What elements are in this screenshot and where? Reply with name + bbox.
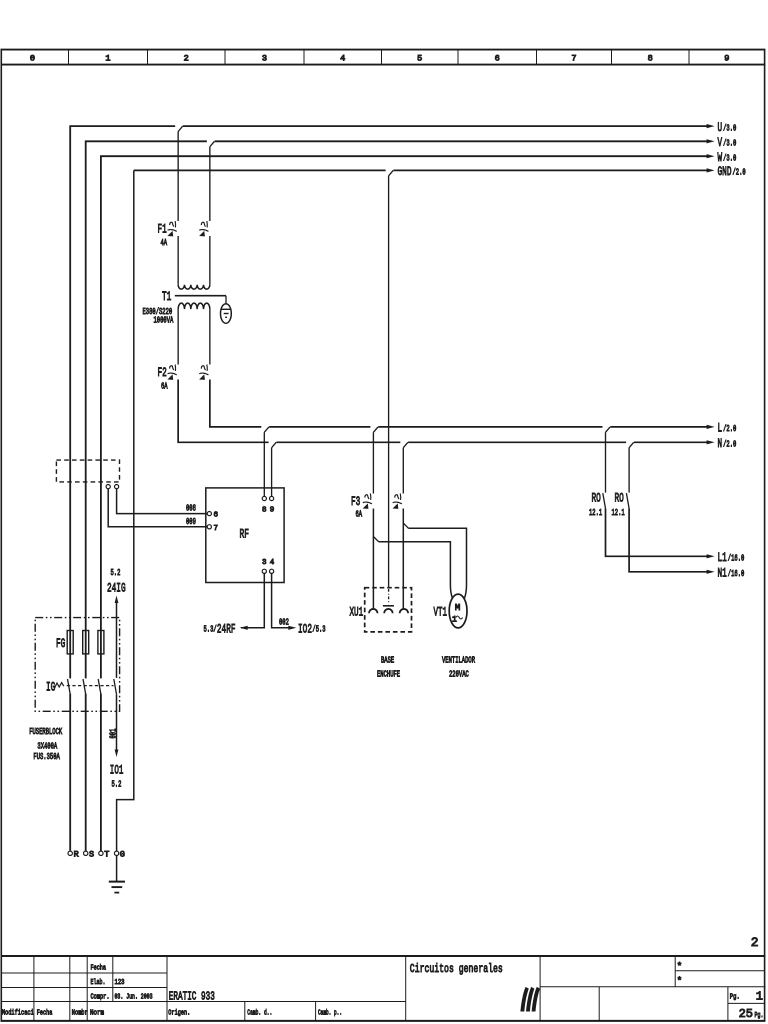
wire bus GND: [117, 170, 708, 851]
fuse FG pole 1: [67, 631, 73, 654]
svg-text:25: 25: [739, 1007, 753, 1021]
label FUSERBLOCK 3X400A FUS.350A: [29, 727, 62, 762]
svg-text:001: 001: [109, 729, 119, 739]
XU1 earth pin: [383, 589, 394, 613]
svg-text:008: 008: [186, 504, 196, 514]
svg-text:Fecha: Fecha: [37, 1010, 53, 1018]
revision stars: [677, 961, 682, 986]
svg-text:Pg.: Pg.: [755, 1012, 764, 1020]
svg-text:/3.0: /3.0: [723, 154, 736, 164]
svg-text:L1: L1: [718, 550, 727, 565]
wire F3 right to XU1 pin N: [402, 509, 404, 609]
svg-text:/16.0: /16.0: [728, 569, 745, 579]
fuse FG pole 3: [98, 631, 104, 654]
svg-text:1: 1: [756, 989, 763, 1003]
wire RO left to L1: [606, 509, 709, 557]
svg-text:24IG: 24IG: [107, 581, 126, 596]
connector pin left: [106, 485, 110, 489]
svg-text:4A: 4A: [161, 238, 168, 248]
svg-text:ERATIC 933: ERATIC 933: [169, 990, 215, 1004]
title block labels: [2, 965, 342, 1018]
node IO1/5.2: [110, 750, 124, 790]
svg-text:F1: F1: [158, 222, 167, 237]
ground symbol: [109, 882, 125, 893]
switch IG pole 4: [114, 679, 117, 694]
wire 24IG to IG pole 4: [116, 603, 118, 678]
svg-text:9: 9: [270, 507, 275, 515]
svg-text:12.1: 12.1: [589, 508, 602, 518]
svg-text:1000VA: 1000VA: [154, 316, 174, 326]
svg-text:2: 2: [184, 54, 189, 64]
node 5.3/24RF: [204, 621, 248, 636]
svg-text:F3: F3: [351, 494, 360, 509]
svg-text:VENTILADOR: VENTILADOR: [442, 656, 475, 666]
block RF: [206, 488, 284, 583]
svg-text:Fecha: Fecha: [91, 965, 107, 973]
svg-text:8: 8: [648, 54, 653, 64]
svg-text:3: 3: [262, 54, 267, 64]
wire bus W: [101, 156, 708, 851]
fuse F3 (right pole): [393, 494, 402, 509]
svg-text:/2.0: /2.0: [723, 424, 736, 434]
svg-text:9: 9: [724, 54, 729, 64]
svg-text:U: U: [718, 120, 723, 135]
svg-text:Nombr: Nombr: [72, 1010, 88, 1018]
svg-text:6A: 6A: [161, 382, 168, 392]
label F2 6A: [158, 365, 168, 392]
label FG: [56, 636, 65, 651]
wire bus U: [70, 126, 708, 851]
junction tap N to contact RO right: [626, 441, 634, 493]
svg-text:R: R: [74, 850, 79, 860]
node L1/16.0: [707, 550, 745, 565]
wire L line from F2 right: [210, 380, 708, 427]
transformer T1 primary winding: [178, 285, 210, 289]
wire F3 left to XU1 pin L: [372, 509, 374, 609]
svg-text:*: *: [677, 961, 682, 971]
RF pin 6: [207, 511, 218, 519]
svg-text:/3.0: /3.0: [723, 139, 736, 149]
node GND/2.0: [707, 164, 746, 179]
wire branch to fan left terminal: [379, 542, 453, 599]
connector pin right: [115, 485, 119, 489]
svg-text:L: L: [718, 421, 723, 436]
svg-text:FUSERBLOCK: FUSERBLOCK: [29, 727, 62, 737]
svg-text:T1: T1: [162, 289, 171, 304]
svg-text:VT1: VT1: [434, 605, 448, 620]
junction F3 left to fan branch: [373, 537, 378, 542]
junction tap L to RF pin 8: [261, 426, 269, 497]
svg-text:RO: RO: [592, 491, 601, 506]
label VT1: [434, 605, 448, 620]
node IO2/5.3: [288, 621, 325, 636]
svg-text:FG: FG: [56, 636, 65, 651]
label F3 6A: [351, 494, 362, 520]
svg-text:Norm: Norm: [90, 1010, 104, 1018]
junction tap GND to XU1 earth pin: [386, 169, 394, 588]
IG mechanical linkage: [67, 685, 114, 687]
svg-text:Pg.: Pg.: [730, 993, 740, 1001]
svg-text:Origen.: Origen.: [168, 1010, 190, 1018]
label RO 12.1 (right): [612, 491, 625, 518]
label 002: [279, 617, 289, 627]
svg-text:Elab.: Elab.: [91, 979, 106, 987]
svg-text:3: 3: [262, 559, 267, 567]
project name ERATIC 933: [169, 990, 215, 1004]
switch IG pole 1: [68, 678, 72, 694]
junction tap N to F3 right: [400, 441, 408, 493]
terminal G: [114, 850, 125, 860]
svg-text:4: 4: [340, 54, 345, 64]
contact RO right: [626, 493, 629, 508]
terminal R: [68, 850, 79, 860]
wire RF pin 3 to 24RF: [241, 573, 264, 627]
svg-text:123: 123: [115, 979, 125, 987]
XU1 pin N arc: [400, 609, 409, 613]
wire branch to fan right terminal: [409, 528, 467, 598]
contact RO left: [603, 493, 606, 508]
fuse F1 (right pole): [199, 221, 210, 285]
svg-text:BASE: BASE: [381, 656, 394, 666]
RF pin 8: [262, 496, 267, 514]
junction tap L to contact RO left: [603, 426, 611, 493]
svg-text:002: 002: [279, 617, 289, 627]
svg-text:6: 6: [214, 512, 219, 520]
wire RO right to N1: [629, 509, 708, 572]
label 009: [186, 517, 196, 527]
RF pin 3: [262, 559, 267, 573]
svg-text:/16.0: /16.0: [728, 554, 745, 564]
label VENTILADOR 220VAC: [442, 656, 475, 680]
node N1/16.0: [707, 566, 745, 581]
svg-text:IG: IG: [46, 680, 55, 695]
svg-text:/5.3: /5.3: [312, 624, 325, 634]
svg-text:4: 4: [270, 559, 275, 567]
node W/3.0: [707, 150, 737, 165]
node L/2.0: [707, 421, 737, 436]
svg-text:/3.0: /3.0: [723, 123, 736, 133]
svg-text:V: V: [718, 135, 723, 150]
label RO 12.1 (left): [589, 491, 602, 518]
svg-text:1: 1: [105, 54, 110, 64]
wire terminal G to ground: [116, 856, 118, 882]
node 24IG/5.2: [107, 568, 126, 603]
fuse F2 (left pole): [168, 365, 177, 380]
transformer T1 secondary winding: [178, 303, 210, 309]
svg-text:220VAC: 220VAC: [449, 670, 469, 680]
transformer T1 core: [175, 295, 226, 297]
svg-text:Circuitos generales: Circuitos generales: [410, 962, 503, 976]
svg-text:3X400A: 3X400A: [37, 742, 57, 752]
RF pin 9: [270, 496, 275, 514]
svg-text:Compr.: Compr.: [91, 994, 110, 1002]
svg-text:M: M: [455, 603, 460, 613]
fuseblock dash-dot enclosure: [35, 618, 119, 712]
svg-text:5.2: 5.2: [112, 780, 122, 790]
svg-text:5.3/: 5.3/: [204, 624, 217, 634]
junction tap U to F1 left: [175, 125, 183, 221]
node V/3.0: [707, 135, 737, 150]
company logo: [520, 987, 540, 1012]
svg-text:N: N: [718, 436, 723, 451]
label T1 E380/S220 1000VA: [143, 289, 174, 326]
svg-text:/2.0: /2.0: [723, 440, 736, 450]
switch IG pole 2: [83, 678, 87, 694]
svg-text:ENCHUFE: ENCHUFE: [377, 670, 400, 680]
svg-text:0: 0: [30, 54, 35, 64]
label IG: [46, 680, 55, 695]
junction tap V to F1 right: [207, 140, 215, 221]
svg-text:/2.0: /2.0: [733, 168, 746, 178]
motor VT1: [449, 594, 467, 628]
sheet number 2: [751, 935, 759, 950]
sheet title Circuitos generales: [410, 962, 503, 976]
junction tap L to F3 left: [370, 426, 378, 494]
svg-text:Camb. p..: Camb. p..: [318, 1010, 342, 1018]
RF pin 4: [270, 559, 275, 573]
svg-text:N1: N1: [718, 566, 727, 581]
svg-text:RF: RF: [240, 527, 250, 542]
svg-text:009: 009: [186, 517, 196, 527]
fuse F1 (left pole): [168, 221, 179, 285]
wire IG pole 4 to IO1: [116, 694, 118, 750]
svg-text:Modificaci: Modificaci: [2, 1010, 34, 1018]
page numbers: [730, 989, 764, 1021]
label 001: [109, 729, 119, 739]
fuse FG pole 2: [83, 631, 89, 654]
column ruler: [1, 50, 766, 65]
svg-text:7: 7: [214, 525, 219, 533]
switch IG pole 3: [98, 678, 102, 694]
svg-text:XU1: XU1: [350, 605, 364, 620]
wire RF pin 4 to IO2: [272, 573, 289, 627]
XU1 pin L arc: [369, 609, 378, 613]
T1 screen to earth symbol: [221, 296, 232, 324]
svg-text:8: 8: [262, 507, 267, 515]
junction F3 right to fan branch: [403, 523, 408, 528]
svg-text:03. Jun. 2003: 03. Jun. 2003: [115, 994, 153, 1002]
wire 008 to RF pin 6: [117, 489, 208, 514]
socket XU1 dashed box: [365, 588, 412, 632]
label 008: [186, 504, 196, 514]
svg-text:7: 7: [571, 54, 576, 64]
svg-text:IO1: IO1: [110, 763, 124, 778]
svg-text:IO2: IO2: [298, 621, 312, 636]
wire bus V: [86, 141, 708, 851]
svg-text:S: S: [89, 850, 94, 860]
node U/3.0: [707, 120, 737, 135]
svg-text:W: W: [718, 150, 723, 165]
svg-text:FUS.350A: FUS.350A: [33, 752, 60, 762]
wire T1 secondary to F2: [178, 309, 210, 364]
svg-text:T: T: [104, 850, 109, 860]
svg-text:6A: 6A: [356, 510, 363, 520]
wire N line from F2 left: [178, 380, 708, 443]
IG actuator: [55, 683, 64, 688]
svg-text:RO: RO: [615, 491, 624, 506]
svg-text:F2: F2: [158, 365, 167, 380]
svg-text:5: 5: [417, 54, 422, 64]
label F1 4A: [158, 222, 168, 249]
svg-text:2: 2: [751, 935, 759, 950]
svg-text:GND: GND: [718, 164, 732, 179]
junction tap N to RF pin 9: [269, 441, 277, 496]
label XU1: [350, 605, 364, 620]
node N/2.0: [707, 436, 737, 451]
svg-text:12.1: 12.1: [612, 508, 625, 518]
svg-text:24RF: 24RF: [217, 621, 236, 636]
terminal S: [84, 850, 95, 860]
connector dashed box: [56, 460, 119, 482]
fuse F3 (left pole): [363, 494, 372, 509]
svg-text:G: G: [120, 850, 125, 860]
title block grid: [1, 956, 766, 1021]
RF pin 7: [207, 525, 218, 533]
terminal T: [99, 850, 110, 860]
svg-text:Camb. d..: Camb. d..: [247, 1010, 272, 1018]
wire 009 to RF pin 7: [108, 489, 207, 527]
label BASE ENCHUFE: [377, 656, 400, 680]
svg-text:5.2: 5.2: [111, 568, 121, 578]
svg-text:6: 6: [495, 54, 500, 64]
fuse F2 (right pole): [199, 365, 208, 380]
svg-text:*: *: [677, 976, 682, 986]
